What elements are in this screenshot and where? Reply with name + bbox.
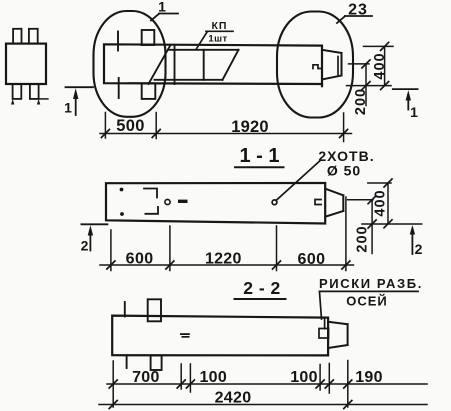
svg-text:2 - 2: 2 - 2 [243, 278, 281, 298]
TOP VIEW: right tenon [322, 50, 342, 80]
SECTION 2-2 dimensions 700/100/100/190 [107, 361, 427, 408]
svg-text:1220: 1220 [205, 251, 242, 268]
svg-text:1: 1 [158, 0, 166, 15]
hole callout leader [276, 161, 320, 200]
svg-text:600: 600 [298, 251, 326, 268]
leader for detail 1 [151, 14, 178, 21]
svg-text:2: 2 [415, 241, 423, 257]
section cut marker 2 (left) [81, 224, 107, 250]
SECTION 1-1: weld mark [178, 200, 188, 203]
svg-text:РИСКИ РАЗБ.: РИСКИ РАЗБ. [319, 276, 423, 291]
svg-text:1 - 1: 1 - 1 [239, 145, 279, 167]
SECTION 1-1 right dimension 400 [362, 183, 422, 224]
svg-text:100: 100 [199, 369, 227, 386]
TOP VIEW: beam outline [104, 44, 322, 86]
leader for detail 23 [337, 16, 372, 23]
SECTION 2-2: beam outline [112, 316, 328, 356]
svg-text:КП: КП [212, 20, 228, 32]
svg-text:1920: 1920 [231, 118, 269, 136]
SECTION 1-1: anchor dots [120, 188, 124, 192]
svg-text:190: 190 [355, 369, 383, 386]
svg-text:Ø 50: Ø 50 [327, 163, 361, 179]
svg-text:2: 2 [81, 238, 89, 254]
svg-text:400: 400 [373, 189, 389, 216]
SECTION 1-1 right dimension 200 [348, 200, 373, 254]
SECTION 1-1: beam outline [106, 183, 325, 224]
svg-text:100: 100 [290, 369, 318, 386]
svg-text:1: 1 [410, 104, 418, 120]
section cut marker 1 (left) [66, 87, 94, 115]
SECTION 2-2: embedded plates left [148, 299, 162, 370]
TOP VIEW: KP plate parallelogram [149, 45, 239, 84]
SECTION 2-2: weld mark middle [180, 333, 190, 335]
svg-text:600: 600 [126, 251, 154, 268]
TOP VIEW: axis mark hook in tenon [313, 65, 322, 69]
svg-text:400: 400 [372, 52, 388, 79]
SECTION 1-1: right tenon [325, 189, 343, 217]
svg-text:1: 1 [64, 100, 72, 116]
TOP VIEW right dimension 400 [347, 46, 394, 85]
section cut marker 2 (right) [411, 229, 413, 254]
SECTION 1-1: lifting loop circle [165, 199, 170, 204]
svg-text:2420: 2420 [215, 390, 252, 407]
TOP VIEW: riska ticks at left end [117, 32, 120, 99]
SECTION 2-2: right tenon [328, 322, 348, 348]
SECTION 2-2 total dimension 2420 [99, 404, 427, 406]
svg-text:ОСЕЙ: ОСЕЙ [346, 294, 388, 309]
TOP VIEW right dimension 200 [349, 64, 370, 106]
svg-text:700: 700 [132, 369, 160, 386]
column cross-section symbol: bottom bars [13, 84, 48, 99]
SECTION 1-1: bracket marks [144, 189, 157, 198]
column cross-section symbol: bottom arrowheads [11, 99, 40, 105]
TOP VIEW dimension 500 / 1920 [100, 113, 352, 142]
detail ellipse 23 [277, 12, 353, 118]
SECTION 2-2: riska ticks left [125, 302, 127, 368]
detail ellipse 1 [94, 11, 166, 117]
SECTION 1-1: hole circle [272, 200, 277, 205]
svg-text:200: 200 [353, 88, 369, 115]
column cross-section symbol: top bars [13, 29, 38, 44]
SECTION 2-2: riska square at right end [319, 319, 329, 338]
svg-text:23: 23 [348, 2, 368, 19]
TOP VIEW: embedded plates at left end [142, 30, 156, 99]
column cross-section symbol top-left: body [6, 44, 46, 84]
svg-text:500: 500 [116, 117, 144, 135]
svg-text:200: 200 [355, 225, 371, 252]
SECTION 1-1: axis mark in tenon [315, 200, 321, 205]
SECTION 1-1 bottom dimensions 600/1220/600 [100, 197, 354, 271]
svg-text:1шт: 1шт [208, 34, 227, 45]
section cut marker 1 (right) [393, 89, 418, 109]
